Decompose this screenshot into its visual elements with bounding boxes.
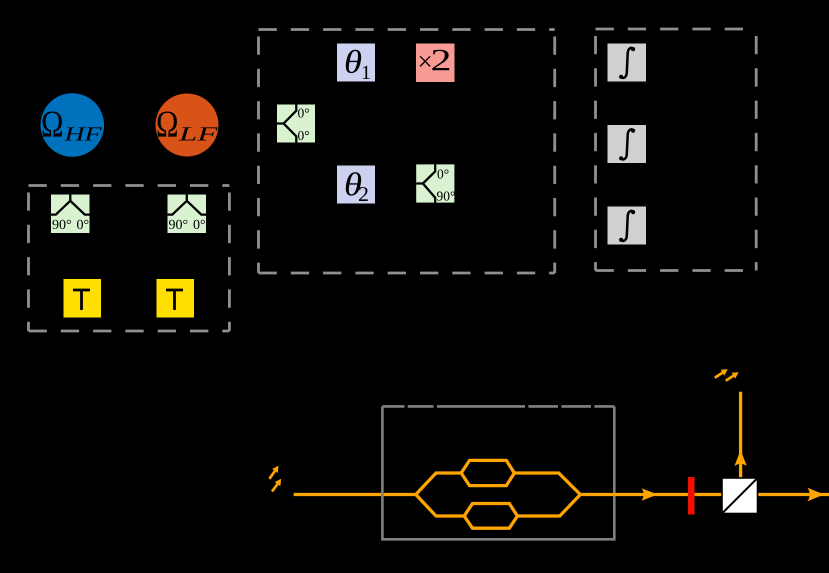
splitter S4 0/90 xyxy=(416,164,455,202)
wire MZM output xyxy=(580,493,829,496)
wire input to MZM xyxy=(294,493,416,496)
integrator I2 xyxy=(608,125,647,163)
phase theta2 xyxy=(337,166,375,204)
MZM box xyxy=(382,406,614,539)
oscillator OmegaLF xyxy=(156,94,219,157)
splitter S3 0/0 xyxy=(277,105,315,143)
delay T1 xyxy=(64,279,102,318)
splitter S1 90/0 xyxy=(51,195,90,234)
wire vertical from cube xyxy=(739,392,742,478)
output light arrows top xyxy=(715,369,739,381)
electrode lower hexagon xyxy=(464,504,517,529)
MZM box top edge dash gaps xyxy=(405,405,595,408)
attenuator red bar xyxy=(688,477,695,515)
integrator I1 xyxy=(608,44,647,82)
MZM waveguides xyxy=(416,460,829,528)
beam splitter cube xyxy=(722,478,758,514)
wire lower arm out xyxy=(517,495,580,517)
wire upper arm xyxy=(416,473,461,495)
input light arrows xyxy=(269,466,281,492)
electrode upper hexagon xyxy=(461,460,514,485)
phase theta1 xyxy=(337,44,375,82)
wire lower arm xyxy=(416,495,464,517)
arrow vertical xyxy=(734,450,746,466)
delay T2 xyxy=(157,279,195,318)
oscillator OmegaHF xyxy=(41,93,105,157)
dashed box middle xyxy=(259,30,555,274)
integrator I3 xyxy=(608,207,647,245)
arrow mid output xyxy=(642,488,658,500)
arrow far output xyxy=(807,488,824,502)
dashed box electrical-left xyxy=(29,186,230,332)
dashed box right xyxy=(596,29,757,271)
multiplier x2 xyxy=(416,44,455,83)
splitter S2 90/0 xyxy=(168,195,207,234)
wire upper arm out xyxy=(514,473,580,495)
